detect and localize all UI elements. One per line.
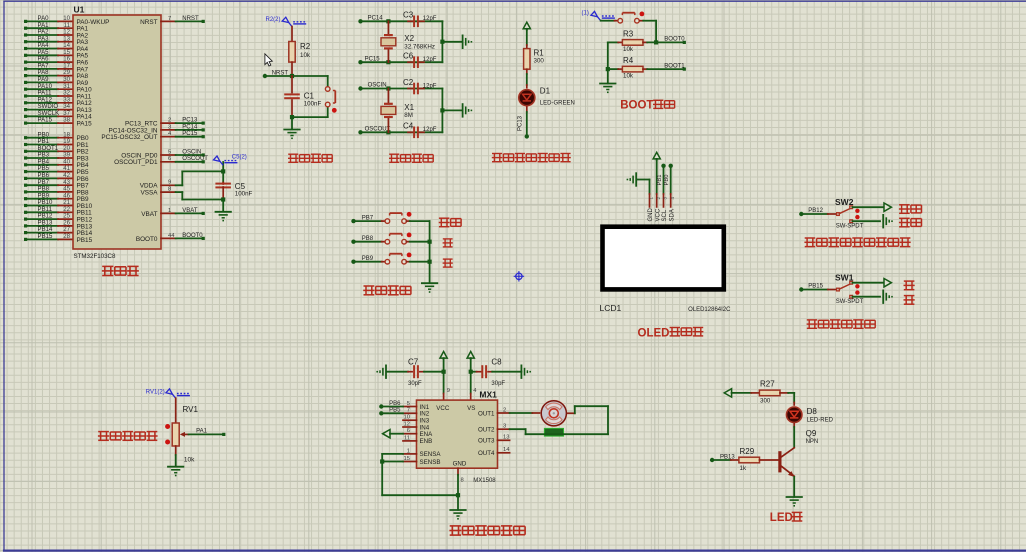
svg-text:C8: C8 — [491, 357, 502, 366]
svg-text:12pF: 12pF — [423, 83, 437, 89]
svg-text:300: 300 — [534, 58, 545, 65]
svg-text:PC15-OSC32_OUT: PC15-OSC32_OUT — [101, 134, 157, 141]
svg-text:D1: D1 — [540, 86, 551, 95]
svg-text:D8: D8 — [807, 407, 818, 416]
svg-text:GND: GND — [648, 208, 654, 222]
svg-text:PB15: PB15 — [808, 284, 823, 290]
svg-text:OSCIN: OSCIN — [368, 83, 387, 89]
svg-text:R2(2): R2(2) — [266, 17, 281, 23]
svg-text:VBAT: VBAT — [141, 211, 157, 218]
svg-text:12: 12 — [404, 421, 410, 427]
svg-text:PA15: PA15 — [77, 121, 93, 128]
svg-text:1: 1 — [407, 448, 410, 454]
svg-text:ENB: ENB — [420, 438, 433, 445]
svg-text:LED-GREEN: LED-GREEN — [540, 100, 575, 106]
svg-text:R4: R4 — [623, 56, 634, 65]
svg-text:LED: LED — [770, 512, 793, 524]
svg-text:5: 5 — [168, 149, 171, 155]
svg-text:PC14: PC14 — [182, 124, 198, 130]
svg-text:VCC: VCC — [655, 208, 661, 221]
svg-text:7: 7 — [407, 408, 410, 414]
svg-text:PB12: PB12 — [808, 208, 823, 214]
svg-text:8: 8 — [168, 187, 171, 193]
svg-text:BOOT0: BOOT0 — [664, 37, 685, 43]
svg-text:SW-SPDT: SW-SPDT — [836, 299, 864, 305]
svg-text:LCD1: LCD1 — [600, 303, 622, 313]
svg-text:SDA: SDA — [669, 209, 675, 221]
svg-text:NRST: NRST — [182, 16, 199, 22]
svg-text:NRST: NRST — [140, 19, 157, 26]
svg-text:PB15: PB15 — [38, 233, 54, 240]
svg-text:6: 6 — [168, 156, 171, 162]
svg-text:BOOT: BOOT — [620, 100, 653, 112]
svg-text:11: 11 — [404, 435, 410, 441]
svg-text:PA15: PA15 — [38, 117, 53, 124]
svg-text:VBAT: VBAT — [182, 208, 198, 214]
svg-text:(1): (1) — [582, 11, 589, 17]
svg-text:PB9: PB9 — [362, 256, 374, 262]
svg-text:U1: U1 — [74, 5, 85, 15]
svg-text:13: 13 — [503, 435, 509, 441]
svg-text:10k: 10k — [184, 457, 195, 464]
svg-text:GND: GND — [453, 461, 467, 468]
svg-text:C1: C1 — [304, 92, 315, 101]
svg-text:X2: X2 — [404, 34, 414, 43]
svg-text:SENSB: SENSB — [420, 459, 441, 466]
svg-text:PB8: PB8 — [362, 236, 374, 242]
svg-text:12pF: 12pF — [423, 127, 437, 133]
svg-text:SCL: SCL — [662, 209, 668, 221]
svg-text:PB6: PB6 — [389, 401, 401, 407]
svg-text:OUT4: OUT4 — [478, 450, 495, 457]
svg-text:VCC: VCC — [436, 405, 450, 412]
svg-text:3: 3 — [503, 424, 506, 430]
svg-text:15: 15 — [404, 456, 410, 462]
svg-text:PB5: PB5 — [389, 408, 401, 414]
svg-text:PB15: PB15 — [77, 237, 93, 244]
svg-text:OLED: OLED — [638, 328, 670, 340]
svg-text:RV1: RV1 — [183, 405, 199, 414]
svg-text:R3: R3 — [623, 29, 634, 38]
svg-text:OUT2: OUT2 — [478, 427, 495, 434]
svg-text:44: 44 — [168, 233, 175, 239]
svg-text:VSSA: VSSA — [140, 190, 158, 197]
svg-text:300: 300 — [760, 397, 771, 404]
svg-text:PC15: PC15 — [182, 131, 198, 137]
svg-text:1: 1 — [168, 208, 171, 214]
svg-text:BOOT0: BOOT0 — [182, 233, 203, 239]
svg-text:2: 2 — [168, 118, 171, 124]
svg-text:C4: C4 — [403, 122, 414, 131]
svg-text:100nF: 100nF — [304, 100, 322, 107]
svg-text:10: 10 — [404, 415, 410, 421]
svg-text:MX1508: MX1508 — [473, 478, 496, 484]
svg-text:5: 5 — [407, 401, 410, 407]
svg-text:100nF: 100nF — [235, 191, 253, 198]
svg-text:OSCOUT_PD1: OSCOUT_PD1 — [114, 159, 158, 166]
svg-text:Q9: Q9 — [806, 429, 817, 438]
svg-text:7: 7 — [168, 16, 171, 22]
svg-text:R1: R1 — [534, 49, 545, 58]
svg-text:R29: R29 — [740, 447, 755, 456]
svg-text:C6: C6 — [403, 52, 414, 61]
svg-text:PC14: PC14 — [368, 16, 384, 22]
svg-text:C2: C2 — [403, 78, 414, 87]
svg-text:28: 28 — [63, 233, 70, 240]
svg-text:38: 38 — [63, 117, 70, 124]
svg-text:PC13: PC13 — [518, 115, 524, 131]
svg-text:6: 6 — [407, 428, 410, 434]
svg-text:BOOT1: BOOT1 — [664, 63, 685, 69]
svg-text:SENSA: SENSA — [420, 451, 442, 458]
svg-text:8M: 8M — [404, 112, 413, 119]
svg-text:PB1: PB1 — [657, 175, 663, 186]
svg-text:10k: 10k — [623, 73, 634, 80]
svg-text:OUT1: OUT1 — [478, 410, 495, 417]
svg-text:10k: 10k — [623, 46, 634, 53]
svg-text:SW1: SW1 — [835, 272, 854, 282]
svg-text:2: 2 — [503, 407, 506, 413]
svg-text:SW2: SW2 — [835, 197, 854, 207]
svg-text:PB0: PB0 — [664, 175, 670, 186]
svg-text:BOOT0: BOOT0 — [136, 236, 158, 243]
svg-text:NRST: NRST — [272, 71, 289, 77]
svg-text:OSCIN: OSCIN — [182, 149, 201, 155]
svg-text:LED-RED: LED-RED — [807, 418, 834, 424]
svg-text:PC15: PC15 — [365, 56, 381, 62]
svg-text:STM32F103C8: STM32F103C8 — [74, 253, 117, 260]
svg-text:NPN: NPN — [806, 439, 819, 445]
svg-text:30pF: 30pF — [491, 381, 505, 387]
svg-text:OLED12864I2C: OLED12864I2C — [688, 307, 731, 313]
svg-text:C3: C3 — [403, 11, 414, 20]
svg-text:PA1: PA1 — [196, 429, 208, 435]
svg-text:3: 3 — [168, 124, 171, 130]
svg-text:C7: C7 — [408, 357, 419, 366]
svg-text:PB7: PB7 — [362, 215, 374, 221]
svg-text:SW-SPDT: SW-SPDT — [836, 224, 864, 230]
svg-text:10k: 10k — [300, 52, 311, 59]
svg-text:R27: R27 — [760, 380, 775, 389]
svg-text:PC13: PC13 — [182, 118, 198, 124]
svg-text:9: 9 — [168, 180, 171, 186]
svg-text:C5(2): C5(2) — [232, 154, 247, 160]
svg-text:RV1(2): RV1(2) — [146, 390, 165, 396]
svg-text:VS: VS — [467, 405, 475, 412]
svg-text:1k: 1k — [740, 465, 747, 472]
svg-text:ENA: ENA — [420, 431, 434, 438]
svg-text:8: 8 — [461, 478, 464, 484]
svg-text:9: 9 — [447, 388, 450, 394]
svg-text:X1: X1 — [404, 103, 414, 112]
svg-text:32.768KHz: 32.768KHz — [404, 44, 435, 51]
svg-text:MX1: MX1 — [479, 390, 497, 400]
svg-text:R2: R2 — [300, 42, 311, 51]
svg-text:14: 14 — [503, 447, 510, 453]
svg-text:OSCOUT: OSCOUT — [182, 156, 208, 162]
svg-text:12pF: 12pF — [423, 16, 437, 22]
svg-text:12pF: 12pF — [423, 57, 437, 63]
svg-text:OUT3: OUT3 — [478, 438, 495, 445]
svg-text:30pF: 30pF — [408, 381, 422, 387]
